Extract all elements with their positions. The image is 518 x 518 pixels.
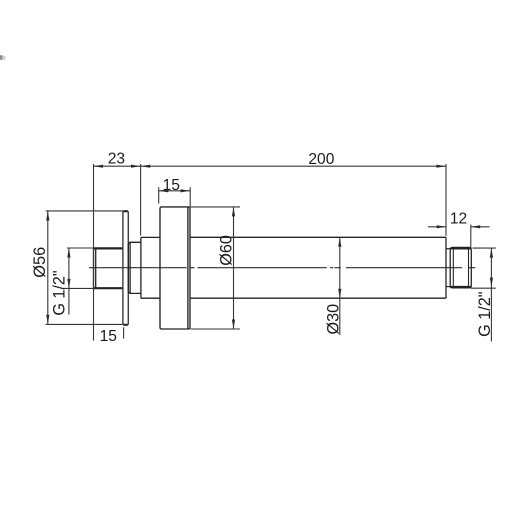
svg-text:23: 23 [108, 151, 125, 168]
svg-text:15: 15 [100, 328, 118, 345]
G1/2 left [67, 248, 70, 257]
collar 1 [128, 242, 141, 293]
neck to end fitting [446, 249, 450, 287]
D30 [338, 237, 341, 246]
dimension D56 (flange) [47, 211, 49, 324]
extension line left (23 / nipple face / 15) [93, 164, 95, 341]
dimension line 23 and 200 [94, 165, 447, 167]
svg-text:Ø30: Ø30 [324, 304, 342, 335]
dimension D30 (pipe) [339, 237, 341, 335]
cylinder D60 [160, 207, 190, 329]
svg-text:Ø56: Ø56 [31, 247, 49, 278]
23: outward arrows at 93.5 and 140.6 on y=166.2 [94, 165, 103, 168]
svg-text:Ø60: Ø60 [218, 235, 236, 266]
svg-text:200: 200 [308, 151, 334, 168]
200 [141, 165, 150, 168]
D60 [232, 207, 235, 216]
svg-text:G 1/2": G 1/2" [50, 270, 68, 316]
arrowheads [46, 165, 493, 329]
centerline [89, 267, 475, 269]
wall flange [123, 211, 128, 325]
svg-text:15: 15 [163, 177, 181, 194]
extension line 12 right [470, 225, 472, 248]
edge smudge (cropped logo remnant) [0, 55, 6, 60]
dimension D60 (cylinder) [233, 207, 235, 329]
dimension 15 bottom right extension [123, 327, 125, 338]
svg-text:G 1/2": G 1/2" [476, 291, 494, 337]
12 (outside arrows) [437, 225, 446, 228]
extension line 200 right / 12 left [445, 164, 447, 236]
dimension G 1/2 right (end thread) [490, 248, 492, 341]
15 top [159, 189, 168, 192]
end fitting G 1/2 right [450, 247, 471, 288]
G1/2 right [490, 248, 493, 257]
dimension line 12 [428, 226, 446, 228]
dimension G 1/2 left (nipple thread) [68, 248, 70, 315]
svg-text:12: 12 [450, 211, 467, 228]
dimension 15 top (cylinder width) [159, 190, 191, 192]
D56 [46, 211, 49, 220]
nipple G 1/2 left [94, 248, 124, 289]
extension line 23|200 junction [140, 164, 142, 236]
pipe D30 (collar2 segment + main run) [141, 237, 446, 298]
